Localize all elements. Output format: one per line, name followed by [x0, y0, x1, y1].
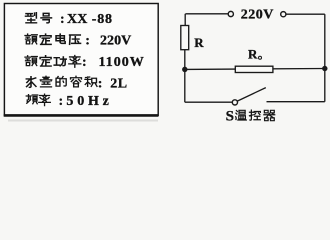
wire top right	[286, 13, 325, 15]
svg-text:50Hz: 50Hz	[66, 94, 112, 109]
junction left	[183, 67, 187, 71]
nameplate border	[4, 4, 158, 116]
svg-text:220V: 220V	[241, 7, 274, 22]
row2 额定电压: 220V	[25, 33, 131, 48]
wire bottom left	[185, 101, 233, 103]
wire bottom right	[267, 101, 325, 103]
svg-text::: :	[85, 33, 90, 48]
row4 水壶的容积: 2L	[26, 76, 127, 91]
junction right	[323, 66, 327, 70]
svg-text::: :	[82, 55, 87, 70]
label R0 subscript	[259, 56, 262, 59]
svg-text:220V: 220V	[100, 33, 131, 48]
nameplate shadow	[8, 120, 158, 122]
wire left vertical top	[184, 14, 186, 26]
label 温控器	[236, 110, 247, 120]
resistor R0	[235, 66, 273, 72]
row3 额定功率: 1100W	[25, 55, 145, 70]
resistor R	[181, 26, 189, 50]
CIRCUIT	[181, 11, 327, 105]
terminal right	[281, 12, 286, 17]
svg-text::: :	[98, 76, 103, 91]
svg-text:R: R	[248, 46, 258, 61]
svg-text::: :	[59, 94, 64, 109]
switch S lever	[237, 88, 265, 102]
row1 型号: XX-88	[26, 12, 113, 27]
wire right vertical	[324, 14, 326, 102]
svg-text:XX: XX	[67, 12, 88, 27]
terminal left	[228, 11, 233, 16]
wire left vertical below R	[184, 50, 186, 102]
wire middle horizontal	[185, 68, 325, 71]
switch S circle	[232, 100, 237, 105]
row5 频率: 50Hz	[26, 94, 112, 109]
page background	[0, 0, 330, 124]
svg-text::: :	[60, 12, 65, 27]
svg-text:2L: 2L	[110, 76, 127, 91]
svg-text:R: R	[194, 35, 204, 50]
svg-text:-88: -88	[92, 12, 113, 27]
svg-text:1100W: 1100W	[99, 55, 145, 70]
svg-text:S: S	[226, 108, 234, 124]
wire top left	[185, 13, 228, 15]
nameplate bottom border thick	[4, 114, 159, 117]
